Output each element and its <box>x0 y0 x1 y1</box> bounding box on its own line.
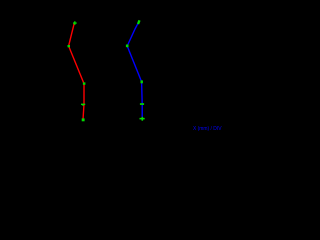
node blue waypoint 3 <box>141 80 143 83</box>
wire red trajectory polyline <box>69 23 84 120</box>
svg-text:X (mm) / DIV: X (mm) / DIV <box>193 126 222 132</box>
wire blue trajectory polyline <box>127 22 142 119</box>
node red waypoint 3 <box>83 82 86 84</box>
node red waypoint 4 (bar marker) <box>81 104 85 106</box>
node red waypoint 1 (plus marker) <box>73 21 77 25</box>
node red endpoint <box>82 118 85 121</box>
node blue waypoint 4 (bar marker) <box>140 103 144 105</box>
node blue endpoint (cross marker) <box>140 117 145 121</box>
node blue waypoint 1 <box>137 20 141 25</box>
node blue waypoint 2 <box>126 45 129 48</box>
node red waypoint 2 <box>68 45 71 47</box>
